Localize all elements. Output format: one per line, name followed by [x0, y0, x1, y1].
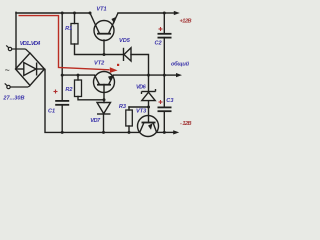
svg-text:общий: общий [171, 61, 190, 68]
wire mid horizontal right (VT2 emitter to common) [114, 74, 165, 76]
wire R2 bottom to VT2 base [78, 97, 104, 100]
wire top rail left segment [16, 12, 90, 14]
svg-text:C3: C3 [166, 98, 174, 104]
resistor R2 [75, 80, 82, 97]
junction C1/VT2 net on top rail [61, 12, 64, 15]
diode VD5 (pointing left) [124, 48, 132, 61]
junction C1 bottom on bottom rail [61, 131, 64, 134]
wire vertical C1 / VT2 net [61, 13, 63, 75]
C1 polarity plus [54, 90, 58, 94]
wire C1 top drop [61, 75, 63, 101]
svg-text:~: ~ [5, 65, 10, 75]
wire bottom rail left segment [45, 70, 140, 133]
transistor VT1 [90, 13, 118, 41]
wire left rail [15, 12, 17, 69]
junction VD6 anode / R3 / VT3 base node [147, 106, 150, 109]
resistor R3 [126, 110, 133, 126]
bridge rectifier VD1...VD4 [16, 53, 45, 86]
junction common output node [163, 74, 166, 77]
wire R3 bottom [128, 126, 130, 132]
svg-text:R1: R1 [65, 26, 72, 32]
wire R1 top [74, 13, 76, 24]
red highlight arrowhead [110, 67, 118, 73]
svg-text:27...30В: 27...30В [2, 96, 24, 102]
svg-text:VD7: VD7 [90, 118, 101, 124]
wire VD6 anode to node [148, 101, 150, 107]
junction VD7 anode on bottom rail [102, 131, 105, 134]
input terminal bottom [5, 83, 30, 88]
wire VD5 anode to corner and down [131, 55, 149, 91]
VT3 emitter arrow (PNP, pointing into base) [148, 123, 153, 130]
wire VT3 base [148, 107, 150, 123]
svg-text:VD6: VD6 [136, 84, 147, 90]
svg-text:C2: C2 [155, 41, 163, 47]
svg-text:VT2: VT2 [94, 61, 105, 67]
resistor R1 [71, 24, 78, 45]
junction VT1 collector on top rail [89, 12, 92, 15]
wire VT1 base drop [103, 40, 105, 55]
capacitor C2 [158, 34, 172, 38]
wire top rail right segment [118, 12, 164, 14]
red ink dot [117, 64, 119, 66]
junction VT1 base / R1 / VD5 node [103, 53, 106, 56]
wire right rail common to C3 [163, 75, 165, 107]
output arrow -12V [173, 130, 179, 134]
svg-text:VT3: VT3 [136, 109, 147, 115]
red highlight path [19, 16, 110, 70]
svg-text:C1: C1 [48, 109, 55, 115]
junction R1 on top rail [73, 12, 76, 15]
output arrow +12V [174, 11, 180, 15]
capacitor C3 [158, 107, 172, 111]
svg-text:VD1...VD4: VD1...VD4 [20, 41, 41, 47]
junction C3 / -12V output node [163, 131, 166, 134]
capacitor C1 [55, 101, 69, 105]
output arrow common [176, 73, 182, 77]
transistor VT3 [138, 116, 159, 137]
wire +12V output lead [164, 12, 174, 14]
svg-text:+12В: +12В [180, 18, 192, 24]
zener diode VD6 (pointing up) [142, 89, 156, 101]
wire C1 bottom drop [61, 105, 63, 132]
wire VD7 bottom [103, 114, 105, 132]
input terminal top [6, 45, 30, 53]
wire R2 top [77, 75, 79, 80]
VT2 emitter arrow [108, 75, 113, 81]
junction VT2 base / R2 / VD7 node [103, 98, 106, 101]
svg-text:VD5: VD5 [119, 38, 131, 44]
junction C1 top / VT2 collector node [61, 74, 64, 77]
wire bottom rail right segment [157, 131, 165, 133]
svg-text:R3: R3 [119, 104, 127, 110]
junction R3 on bottom rail [128, 131, 131, 134]
diode VD7 (pointing down) [97, 103, 111, 115]
wire right rail C2 top [163, 13, 165, 34]
junction R2 top [77, 74, 80, 77]
wire right rail C2 bottom to common [163, 38, 165, 76]
wire R1 bottom to base line [75, 44, 123, 55]
junction VD5-VD6 chain on common wire [147, 74, 150, 77]
wire R3 node horizontal [129, 106, 149, 108]
wire right rail C3 bottom [163, 111, 165, 132]
junction C2 / +12V output node [163, 12, 166, 15]
svg-text:- 12В: - 12В [180, 121, 192, 127]
wire R3 top [128, 107, 130, 110]
transistor VT2 [94, 72, 115, 93]
svg-text:VT1: VT1 [96, 7, 106, 13]
VT1 emitter arrow [111, 17, 116, 24]
wire mid horizontal left (to VT2 collector) [62, 74, 94, 76]
C3 polarity plus [159, 100, 163, 104]
wire -12V output lead [164, 131, 173, 133]
svg-text:R2: R2 [65, 87, 73, 93]
wire VT2 base to VD7 [103, 85, 105, 103]
C2 polarity plus [159, 27, 163, 31]
wire common output lead [164, 74, 176, 76]
